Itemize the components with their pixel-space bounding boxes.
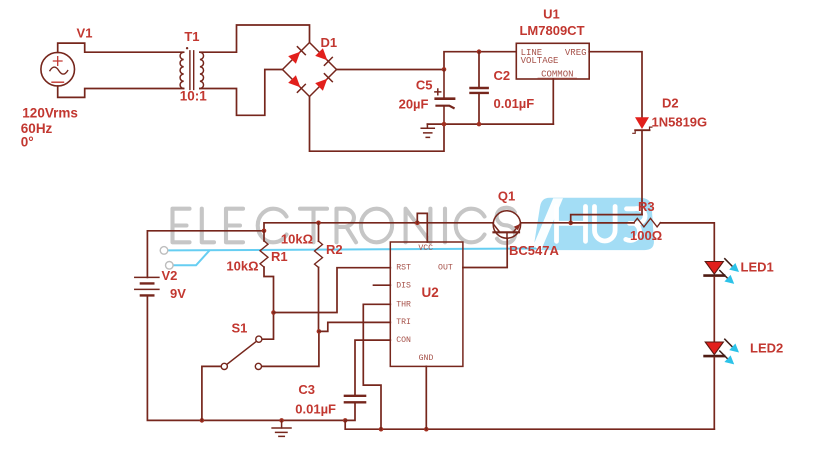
diode D2 1N5819G (633, 117, 652, 214)
regulator U1 LM7809CT (516, 43, 589, 79)
junction U2 VCC (415, 221, 420, 226)
ground symbol bottom (272, 420, 291, 436)
svg-text:60Hz: 60Hz (21, 121, 53, 136)
svg-text:V2: V2 (162, 268, 178, 283)
ground rail of supply (427, 123, 553, 125)
junction C3 bottom (343, 418, 348, 423)
svg-text:C3: C3 (298, 382, 315, 397)
capacitor C5 (435, 70, 454, 125)
svg-text:RST: RST (396, 263, 411, 272)
svg-text:Q1: Q1 (498, 188, 515, 203)
resistor R2 (315, 223, 323, 332)
junction C2 bottom (477, 122, 482, 127)
value 120Vrms 60Hz 0 deg (21, 106, 78, 150)
junction R3 node (568, 221, 573, 226)
svg-text:V1: V1 (77, 26, 93, 41)
wire LED2 to ground rail (713, 357, 715, 429)
svg-text:VOLTAGE: VOLTAGE (521, 56, 559, 66)
svg-text:T1: T1 (184, 29, 199, 44)
svg-text:D1: D1 (321, 35, 338, 50)
svg-text:10:1: 10:1 (180, 89, 208, 104)
svg-text:C5: C5 (416, 77, 433, 92)
wire bridge bottom to ground rail (310, 97, 445, 152)
svg-text:R3: R3 (638, 199, 655, 214)
svg-text:C2: C2 (494, 68, 511, 83)
svg-text:U1: U1 (543, 7, 560, 22)
wire T1 bottom-right to bridge left (200, 70, 283, 116)
svg-text:0.01µF: 0.01µF (494, 96, 535, 111)
wire V1 top to T1 (58, 43, 184, 52)
junction R1 top (262, 229, 267, 234)
wire U1 COMMON down to ground rail (552, 79, 554, 124)
wire battery plus to VCC rail (147, 223, 493, 278)
junction S1 bottom (200, 418, 205, 423)
svg-text:DIS: DIS (396, 282, 411, 291)
source V1 (41, 52, 75, 86)
wire U2 THR to ground rail (363, 304, 390, 429)
ground symbol supply (421, 124, 434, 137)
svg-text:THR: THR (396, 300, 411, 309)
wire T1 top-right to bridge top (200, 25, 310, 52)
battery V2 (135, 277, 159, 295)
capacitor C2 (471, 52, 488, 124)
stub U2 DIS (374, 284, 391, 286)
LED1 (705, 259, 739, 284)
svg-text:LED2: LED2 (750, 340, 783, 355)
svg-text:OUT: OUT (438, 263, 453, 272)
switch S1 (202, 313, 319, 421)
wire ground rail step (345, 420, 714, 429)
resistor R3 (571, 218, 715, 261)
transistor Q1 (493, 211, 520, 239)
wire U2 OUT to Q1 base (463, 238, 507, 267)
junction C5 bottom (442, 122, 447, 127)
svg-text:0°: 0° (21, 135, 34, 150)
svg-text:LED1: LED1 (741, 259, 774, 274)
wire battery minus to ground rail (147, 295, 345, 420)
svg-text:120Vrms: 120Vrms (22, 106, 78, 121)
svg-text:VREG: VREG (565, 48, 587, 58)
resistor R1 (260, 231, 274, 313)
wire Q1 emitter to R3 node (521, 222, 571, 224)
svg-text:9V: 9V (170, 286, 186, 301)
svg-text:GND: GND (419, 354, 434, 363)
junction THR return (379, 427, 384, 432)
wire LED1 to LED2 (713, 277, 715, 342)
junction U2 GND (424, 427, 429, 432)
svg-text:LM7809CT: LM7809CT (519, 23, 584, 38)
svg-text:20µF: 20µF (399, 97, 429, 112)
svg-text:0.01µF: 0.01µF (295, 401, 336, 416)
wire V1 bottom to T1 (58, 86, 184, 97)
wire bridge right to C5 node (337, 69, 445, 71)
svg-text:S1: S1 (232, 321, 248, 336)
timer U2 (390, 242, 463, 366)
svg-text:1N5819G: 1N5819G (652, 114, 708, 129)
wire C5 node up to U1 rail (444, 52, 516, 70)
wire U1 VREG to D2 (589, 52, 642, 117)
svg-text:TRI: TRI (396, 318, 411, 327)
wire U2 CON to C3 (355, 340, 390, 395)
capacitor C3 (345, 396, 365, 421)
junction R2 bottom node (317, 329, 322, 334)
wire U2 GND to ground rail (425, 366, 427, 429)
svg-text:BC547A: BC547A (509, 243, 559, 258)
wire U2 VCC step to rail (417, 213, 427, 242)
LED2 (705, 339, 739, 364)
bridge rectifier D1 (283, 43, 337, 97)
wire R3 node step to D2 (571, 215, 642, 223)
svg-text:D2: D2 (662, 96, 679, 111)
svg-text:U2: U2 (422, 285, 439, 300)
junction C5 top (442, 67, 447, 72)
svg-text:100Ω: 100Ω (630, 228, 662, 243)
svg-text:10kΩ: 10kΩ (281, 231, 313, 246)
junction C2 top (477, 49, 482, 54)
svg-text:10kΩ: 10kΩ (226, 259, 258, 274)
svg-text:VCC: VCC (418, 244, 433, 253)
svg-text:R1: R1 (271, 249, 288, 264)
wire U2 RST to R1 node (274, 268, 391, 313)
junction ground bottom (279, 418, 284, 423)
transformer T1 (180, 47, 203, 89)
wire U2 TRI to R2 node (319, 322, 390, 331)
junction R2 top (316, 221, 321, 226)
junction R1 bottom node (271, 310, 276, 315)
svg-text:R2: R2 (326, 242, 343, 257)
svg-text:CON: CON (396, 336, 411, 345)
